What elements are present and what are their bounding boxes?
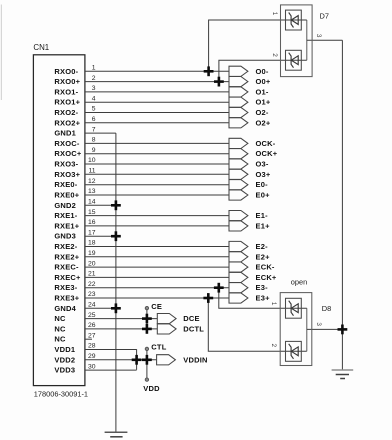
pin 29 VDD2	[54, 353, 156, 364]
svg-text:RXE2+: RXE2+	[54, 252, 79, 261]
svg-text:7: 7	[92, 126, 96, 133]
pin 21 RXEC+	[54, 271, 229, 282]
pin 22 RXE3-	[54, 281, 229, 292]
svg-text:GND4: GND4	[54, 304, 76, 313]
svg-text:1: 1	[270, 302, 277, 306]
junction CE/pin26	[142, 324, 152, 334]
svg-text:11: 11	[88, 168, 95, 175]
svg-text:RXE1-: RXE1-	[54, 211, 77, 220]
wire CE vertical	[146, 310, 148, 329]
svg-text:3: 3	[315, 322, 322, 326]
diode D8b	[289, 344, 299, 359]
svg-text:16: 16	[88, 219, 96, 226]
svg-text:O2-: O2-	[256, 108, 269, 117]
svg-text:21: 21	[88, 271, 96, 278]
pin 4 RXO1+	[54, 95, 229, 106]
svg-text:CE: CE	[151, 302, 162, 311]
svg-text:RXEC-: RXEC-	[54, 263, 79, 272]
svg-text:RXE1+: RXE1+	[54, 221, 79, 230]
diode D7b	[289, 53, 299, 68]
svg-text:RXE3-: RXE3-	[54, 283, 77, 292]
svg-text:DCE: DCE	[183, 314, 199, 323]
svg-text:24: 24	[88, 302, 96, 309]
buffer O3+	[229, 169, 271, 179]
pin 27 NC	[54, 332, 95, 343]
svg-text:27: 27	[88, 332, 96, 339]
svg-text:17: 17	[88, 229, 96, 236]
pin 5 RXO2-	[54, 106, 229, 117]
svg-text:2: 2	[271, 53, 278, 57]
diode package D8	[280, 293, 312, 366]
gate DCE	[157, 314, 199, 324]
buffer O3-	[229, 159, 269, 169]
svg-text:E1-: E1-	[256, 211, 269, 220]
wire VDD pins rail vertical	[136, 349, 138, 370]
svg-text:30: 30	[88, 363, 96, 370]
gate DCTL	[157, 324, 204, 334]
wire right GND vertical	[341, 40, 343, 369]
ground symbol right	[332, 370, 354, 379]
pin 3 RXO1-	[54, 85, 229, 96]
svg-text:22: 22	[88, 281, 96, 288]
svg-text:O0-: O0-	[256, 67, 269, 76]
buffer O1+	[229, 97, 271, 107]
wire CTL to VDD vertical	[146, 351, 148, 378]
svg-text:RXE0+: RXE0+	[54, 191, 79, 200]
buffer ECK-	[229, 262, 275, 272]
svg-text:15: 15	[88, 209, 96, 216]
buffer OCK-	[229, 138, 276, 148]
svg-text:6: 6	[92, 116, 96, 123]
svg-text:1: 1	[271, 12, 278, 16]
junction pin1/D7	[204, 66, 214, 76]
junction GND rail pin17	[111, 231, 121, 241]
buffer O2+	[229, 118, 271, 128]
pin 7 GND1	[54, 126, 116, 137]
terminal CE	[145, 306, 148, 309]
pin 9 RXOC+	[54, 147, 229, 158]
svg-text:RXE3+: RXE3+	[54, 294, 79, 303]
svg-text:RXO1+: RXO1+	[54, 98, 80, 107]
svg-text:5: 5	[92, 106, 96, 113]
svg-text:23: 23	[88, 291, 96, 298]
junction pin22/D8	[214, 283, 224, 293]
pin 28 VDD1	[54, 343, 136, 354]
ground symbol bottom	[105, 432, 128, 437]
svg-text:19: 19	[88, 250, 96, 257]
pin 26 NC	[54, 322, 157, 333]
terminal CTL	[145, 347, 148, 350]
svg-text:VDD: VDD	[143, 384, 160, 393]
svg-text:GND1: GND1	[54, 129, 76, 138]
svg-text:4: 4	[92, 95, 96, 102]
buffer E3+	[229, 293, 270, 303]
junction pin23/D8	[203, 293, 213, 303]
pin 23 RXE3+	[54, 291, 229, 302]
wire GND rail vertical	[115, 133, 117, 431]
svg-text:1: 1	[92, 65, 96, 72]
pin 17 GND3	[54, 229, 116, 240]
svg-text:D7: D7	[320, 11, 329, 20]
diode package D7	[281, 5, 313, 77]
svg-text:2: 2	[92, 75, 96, 82]
svg-text:NC: NC	[54, 324, 66, 333]
pin 11 RXO3+	[54, 168, 229, 179]
svg-text:25: 25	[88, 312, 96, 319]
pin 1 RXO0-	[54, 65, 229, 76]
svg-text:18: 18	[88, 240, 96, 247]
buffer ECK+	[229, 272, 277, 282]
svg-text:O3+: O3+	[256, 170, 271, 179]
wire pin2 to D7 pin2	[219, 60, 307, 81]
junction GND rail pin24	[111, 303, 121, 313]
svg-text:3: 3	[92, 85, 96, 92]
svg-text:O1+: O1+	[256, 98, 271, 107]
svg-text:RXOC-: RXOC-	[54, 139, 79, 148]
buffer E1+	[229, 221, 270, 231]
svg-text:9: 9	[92, 147, 96, 154]
svg-text:VDDIN: VDDIN	[183, 355, 207, 364]
svg-text:RXO3+: RXO3+	[54, 170, 80, 179]
svg-text:RXO3-: RXO3-	[54, 160, 78, 169]
svg-text:ECK+: ECK+	[256, 273, 277, 282]
svg-text:NC: NC	[54, 335, 66, 344]
junction VDD rail/pin29	[132, 355, 142, 365]
wire D8 pin3	[307, 328, 343, 330]
svg-text:GND3: GND3	[54, 232, 76, 241]
pin 2 RXO0+	[54, 75, 229, 86]
svg-text:RXO0-: RXO0-	[54, 67, 78, 76]
svg-text:RXO2+: RXO2+	[54, 118, 80, 127]
svg-text:O2+: O2+	[256, 118, 271, 127]
svg-text:26: 26	[88, 322, 96, 329]
svg-text:E2+: E2+	[256, 252, 271, 261]
pin 18 RXE2-	[54, 240, 229, 251]
pin 10 RXO3-	[54, 157, 229, 168]
junction D8 pin3 / GND	[338, 325, 348, 335]
buffer E0+	[229, 190, 270, 200]
wire pin23 to D8 pin2	[208, 298, 306, 352]
svg-text:28: 28	[88, 343, 96, 350]
svg-text:VDD2: VDD2	[54, 355, 75, 364]
svg-text:13: 13	[88, 188, 96, 195]
scan edge artifact	[0, 5, 2, 101]
pin 12 RXE0-	[54, 178, 229, 189]
svg-text:D8: D8	[322, 304, 331, 313]
gate VDDIN	[157, 355, 208, 365]
pin 24 GND4	[54, 302, 116, 313]
buffer O0+	[229, 77, 271, 87]
pin 30 VDD3	[54, 363, 136, 374]
svg-text:RXOC+: RXOC+	[54, 149, 81, 158]
pin 16 RXE1+	[54, 219, 229, 230]
svg-text:E3+: E3+	[256, 294, 271, 303]
svg-text:E2-: E2-	[256, 242, 269, 251]
wire D7 pin3	[307, 39, 343, 41]
svg-text:GND2: GND2	[54, 201, 76, 210]
pin 25 NC	[54, 312, 157, 323]
pin 14 GND2	[54, 199, 116, 210]
buffer O0-	[229, 66, 269, 76]
svg-text:OCK-: OCK-	[256, 139, 276, 148]
pin 13 RXE0+	[54, 188, 229, 199]
junction pin2/D7	[214, 77, 224, 87]
svg-text:RXEC+: RXEC+	[54, 273, 81, 282]
svg-text:OCK+: OCK+	[256, 149, 278, 158]
svg-text:CTL: CTL	[151, 342, 166, 351]
buffer E3-	[229, 283, 268, 293]
svg-text:VDD1: VDD1	[54, 345, 75, 354]
terminal VDD	[145, 378, 148, 381]
svg-text:RXO0+: RXO0+	[54, 77, 80, 86]
svg-text:ECK-: ECK-	[256, 263, 275, 272]
pin 6 RXO2+	[54, 116, 229, 127]
svg-text:NC: NC	[54, 314, 66, 323]
wire D7 internal common	[306, 20, 308, 60]
svg-text:CN1: CN1	[33, 43, 49, 52]
svg-text:RXE2-: RXE2-	[54, 242, 77, 251]
svg-text:12: 12	[88, 178, 96, 185]
connector CN1 body	[33, 55, 85, 386]
diode D8a	[289, 301, 299, 316]
buffer O1-	[229, 87, 269, 97]
wire pin1 to D7 pin1	[209, 20, 307, 71]
buffer E2+	[229, 252, 270, 262]
svg-text:20: 20	[88, 260, 96, 267]
svg-text:O0+: O0+	[256, 77, 271, 86]
svg-text:10: 10	[88, 157, 96, 164]
svg-text:29: 29	[88, 353, 96, 360]
svg-text:DCTL: DCTL	[183, 324, 204, 333]
svg-text:E0-: E0-	[256, 180, 269, 189]
svg-text:RXO2-: RXO2-	[54, 108, 78, 117]
buffer E2-	[229, 241, 268, 251]
pin 19 RXE2+	[54, 250, 229, 261]
svg-text:3: 3	[315, 34, 322, 38]
svg-text:2: 2	[270, 344, 277, 348]
svg-text:8: 8	[92, 137, 96, 144]
svg-text:VDD3: VDD3	[54, 366, 75, 375]
svg-text:O1-: O1-	[256, 87, 269, 96]
svg-text:E3-: E3-	[256, 283, 269, 292]
svg-text:open: open	[291, 278, 307, 287]
wire D8 internal common	[306, 308, 308, 351]
svg-text:E0+: E0+	[256, 191, 271, 200]
svg-text:14: 14	[88, 199, 96, 206]
svg-text:RXO1-: RXO1-	[54, 87, 78, 96]
svg-text:178006-30091-1: 178006-30091-1	[34, 389, 88, 398]
svg-text:RXE0-: RXE0-	[54, 180, 77, 189]
junction GND1 rail pin14	[111, 200, 121, 210]
pin 8 RXOC-	[54, 137, 229, 148]
buffer OCK+	[229, 149, 278, 159]
pin 20 RXEC-	[54, 260, 229, 271]
svg-text:O3-: O3-	[256, 160, 269, 169]
buffer E0-	[229, 180, 268, 190]
buffer O2-	[229, 107, 269, 117]
diode D7a	[289, 13, 299, 28]
junction CTL/pin29	[142, 355, 152, 365]
pin 15 RXE1-	[54, 209, 229, 220]
buffer E1-	[229, 211, 268, 221]
wire pin22 to D8 pin1	[219, 288, 307, 309]
svg-text:E1+: E1+	[256, 221, 271, 230]
junction CE/pin25	[142, 314, 152, 324]
